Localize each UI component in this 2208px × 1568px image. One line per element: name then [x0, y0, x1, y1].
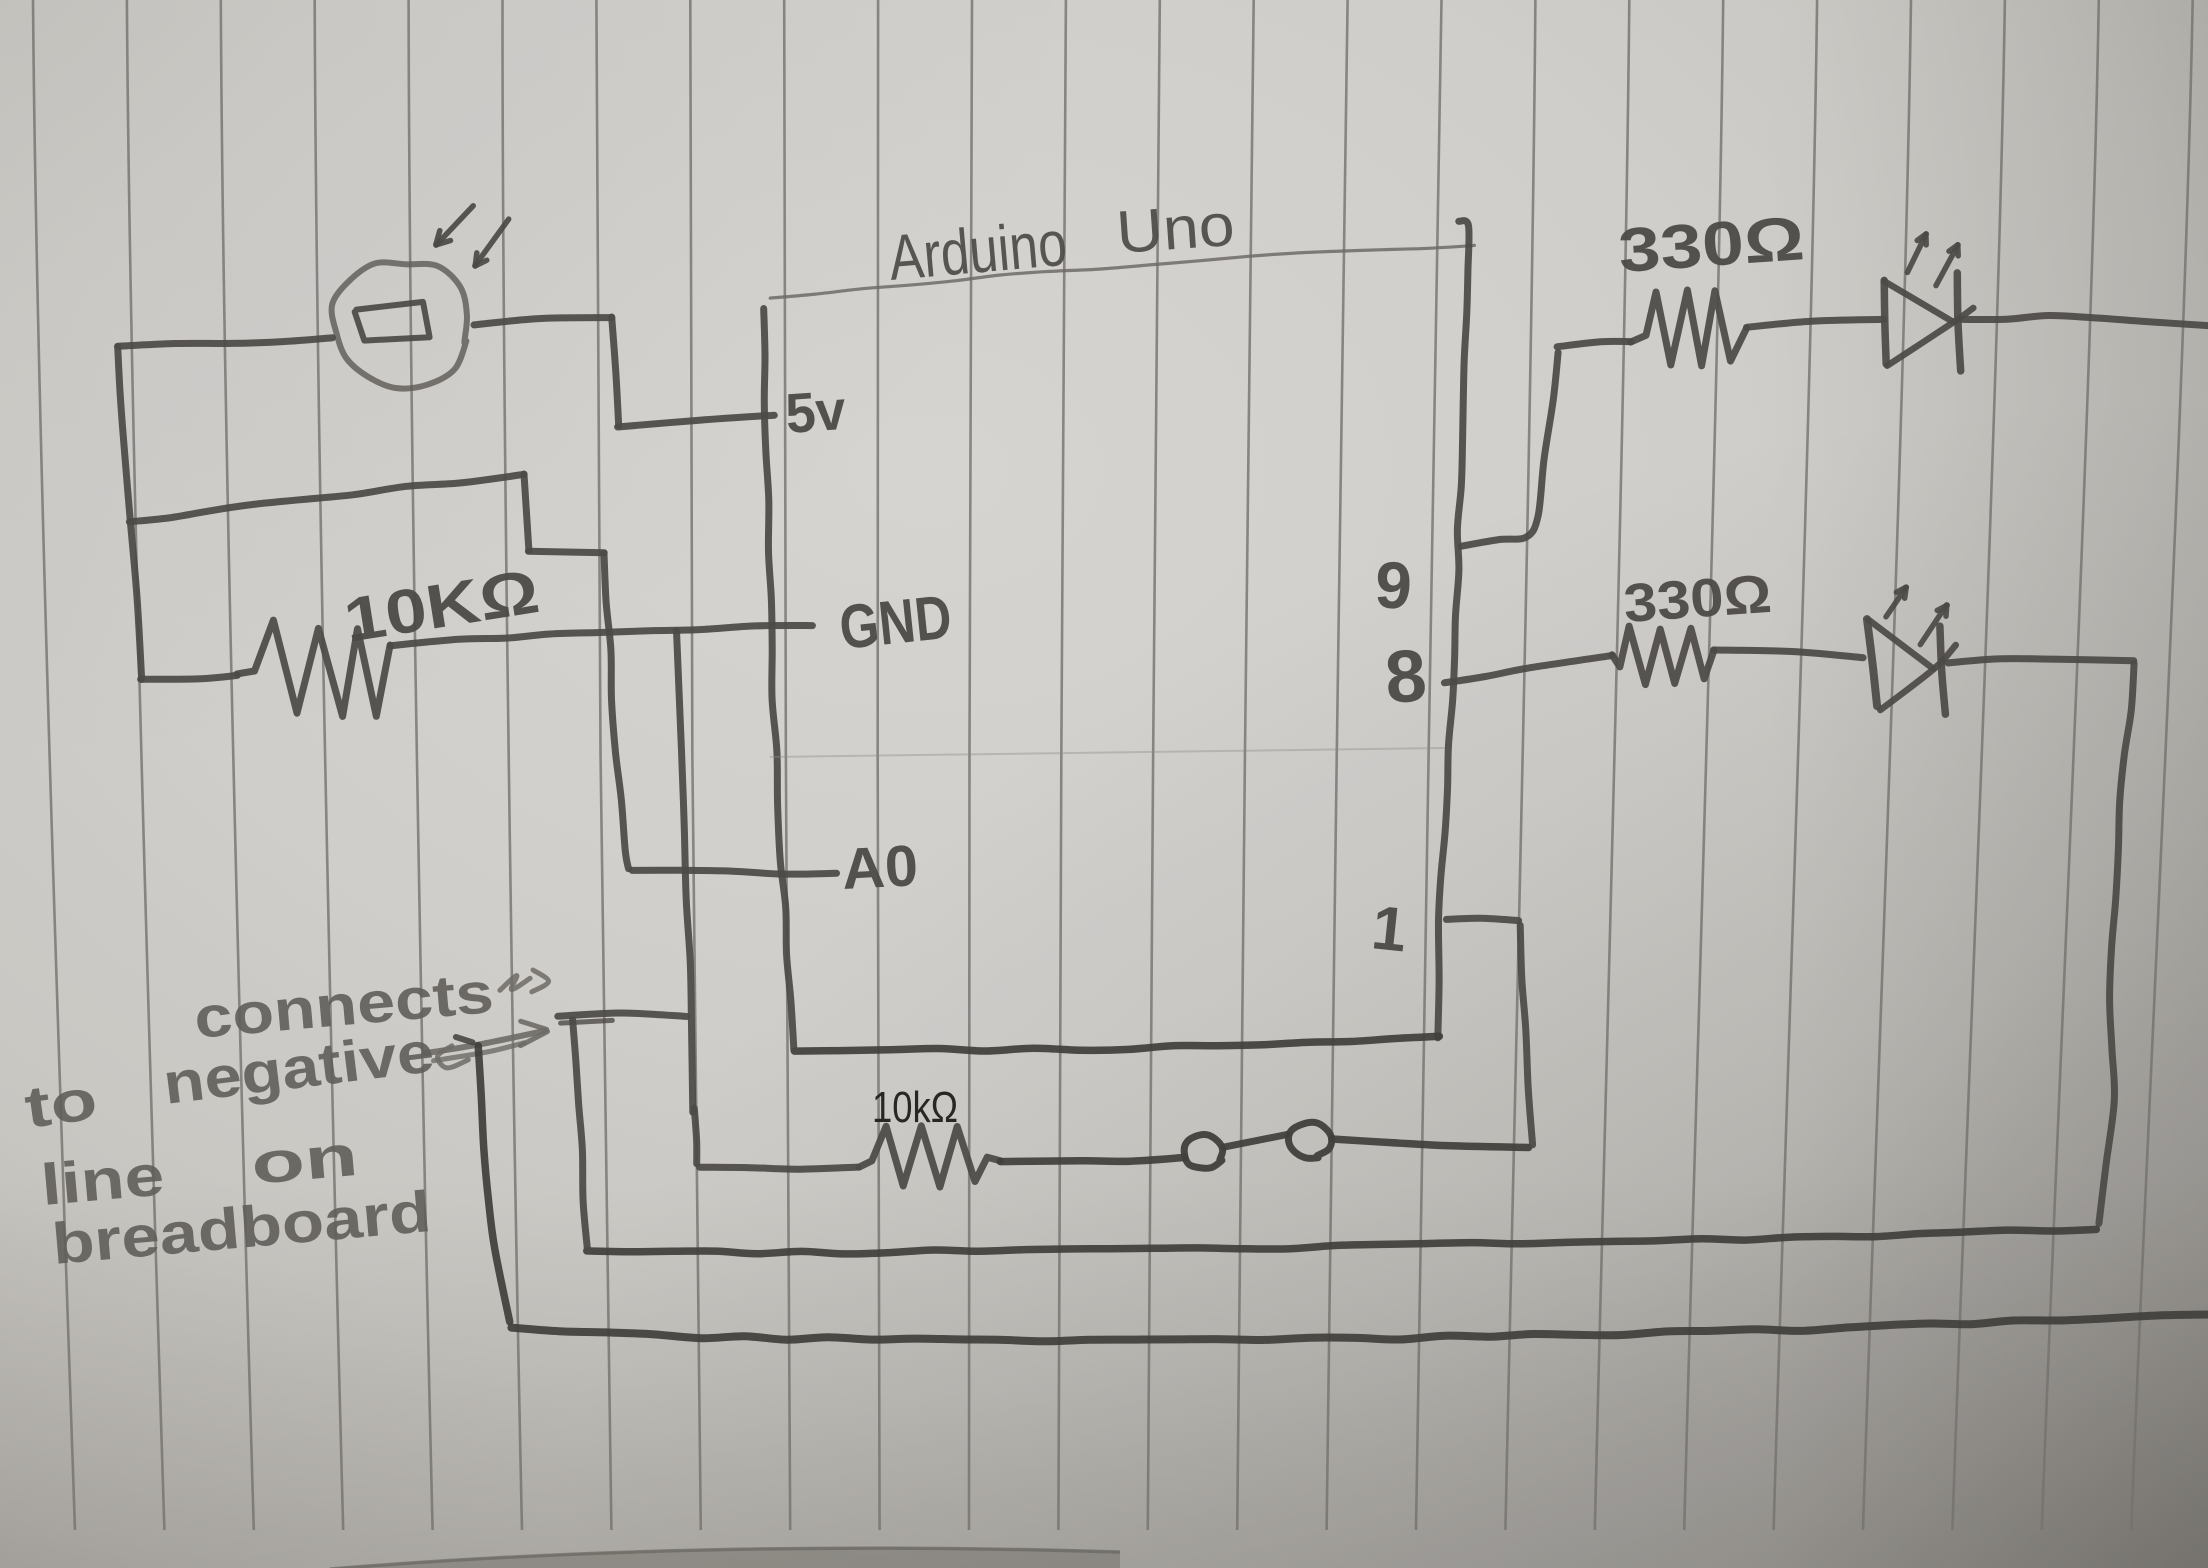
- wire: rail up to connects node: [573, 1020, 588, 1250]
- wire: R1 right lead to GND pin: [391, 625, 813, 645]
- svg-text:330Ω: 330Ω: [1622, 564, 1774, 634]
- wire: R4 to switch S1: [1000, 1158, 1184, 1162]
- label R3 330Ω: [1622, 564, 1774, 634]
- wire: LDR1 right lead to 5v pin: [474, 317, 774, 427]
- wire: switch S1 up to pin 1: [1332, 918, 1533, 1147]
- photoresistor LDR1: [332, 262, 467, 388]
- wire: left rail vertical down to R1: [118, 347, 238, 680]
- wire: lower return rail: [587, 1229, 2097, 1254]
- light arrows from LED D2: [1886, 587, 1947, 645]
- wire: LED D2 cathode right and down: [1948, 659, 2134, 1224]
- svg-text:8: 8: [1382, 633, 1429, 719]
- pin label GND: [836, 583, 955, 663]
- pin label 1: [1369, 893, 1411, 965]
- pin label 9: [1373, 547, 1414, 623]
- pin label 5v: [783, 378, 847, 445]
- wire: connects link node: [558, 1013, 687, 1023]
- wire: pin 9 to R2: [1461, 341, 1631, 546]
- wire: junction node to A0 staircase: [129, 474, 628, 869]
- svg-text:10kΩ: 10kΩ: [872, 1083, 958, 1132]
- svg-text:GND: GND: [836, 583, 955, 663]
- resistor R4 10KΩ: [859, 1126, 1000, 1187]
- label R1 10KΩ: [339, 557, 543, 656]
- wire: pin 8 to R3: [1444, 655, 1612, 682]
- wire: LED D1 cathode to right edge: [1962, 315, 2208, 325]
- resistor R3 330Ω: [1612, 626, 1714, 685]
- label R4 10kΩ: [872, 1083, 958, 1132]
- svg-text:to: to: [21, 1066, 101, 1140]
- Arduino U1 outline: [764, 221, 1475, 1051]
- svg-text:Uno: Uno: [1114, 191, 1236, 266]
- wire: R3 to LED D2: [1714, 650, 1864, 658]
- resistor R2 330Ω: [1631, 290, 1747, 366]
- svg-text:A0: A0: [840, 833, 919, 902]
- svg-text:1: 1: [1369, 893, 1411, 965]
- resistor R1 10KΩ: [237, 620, 390, 716]
- svg-text:5v: 5v: [783, 378, 847, 445]
- wire: R2 to LED D1: [1747, 319, 1884, 327]
- wire: GND node down to R4: [677, 631, 858, 1170]
- pin label A0: [840, 833, 919, 902]
- wire: LDR1 left lead across to left rail: [118, 338, 333, 347]
- pin label 8: [1382, 633, 1429, 719]
- label Arduino Uno: [886, 191, 1237, 294]
- annotation: connects to negative line on breadboard: [21, 960, 496, 1277]
- annotation arrow to connects node: [424, 970, 549, 1068]
- wire: bottom rail to right edge: [511, 1315, 2207, 1342]
- wire: drop to bottom rail: [456, 1037, 510, 1322]
- LED D2: [1867, 619, 1956, 714]
- LED D1: [1884, 273, 1973, 371]
- svg-text:9: 9: [1373, 547, 1414, 623]
- svg-text:330Ω: 330Ω: [1616, 204, 1806, 286]
- wire: A0 pin lead: [632, 870, 836, 874]
- switch S1: [1184, 1122, 1332, 1168]
- light arrows into LDR1: [436, 206, 509, 266]
- light arrows from LED D1: [1907, 234, 1958, 286]
- label R2 330Ω: [1616, 204, 1806, 286]
